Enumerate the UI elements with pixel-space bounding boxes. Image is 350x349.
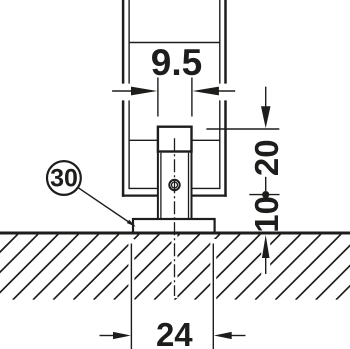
dim 24 left extension line [130, 244, 132, 349]
white halo casing for dim 24 right extension line [210, 239, 216, 301]
door right inner wall [219, 0, 221, 84]
dim 20 vertical line lower [265, 177, 267, 191]
white halo casing for dim 24 left extension line [128, 239, 134, 301]
svg-text:24: 24 [156, 316, 193, 349]
base plate (30) [133, 219, 215, 233]
dim 9.5 right extension line [191, 78, 193, 117]
guide web left outer wall [157, 152, 159, 220]
balloon leader line [79, 188, 135, 226]
dim 24 left arrowhead [113, 332, 131, 339]
centerline (dash-dot) [174, 138, 176, 296]
dim 24 right extension line [212, 244, 214, 349]
door right outer wall [224, 0, 227, 84]
dim 10 vertical line below floor [265, 250, 267, 274]
door cavity mid ledge line right [192, 139, 220, 141]
door outer bottom line left [122, 195, 158, 197]
dim 24 left tail line [100, 335, 115, 337]
door inner bottom line left [129, 187, 158, 189]
guide web right inner line [188, 153, 190, 219]
door cavity top line [129, 42, 220, 44]
white halo casing for dim 10 up arrow [261, 235, 270, 277]
dim 20 vertical line upper [265, 87, 267, 109]
dim 9.5 left arrowhead [131, 87, 157, 96]
screw outer circle [169, 180, 179, 190]
dim 9.5 left tail line [112, 90, 131, 92]
guide web left inner line [160, 153, 162, 219]
door inner bottom line right [192, 187, 220, 189]
guide web right outer wall [191, 152, 193, 220]
white halo casing for centerline below plate [172, 235, 178, 298]
floor hatching [0, 234, 350, 300]
door left inner wall [128, 0, 130, 84]
dim 24 right tail line [231, 335, 246, 337]
dim 20 top extension line [206, 128, 279, 130]
svg-text:9.5: 9.5 [151, 42, 202, 83]
dim 24 right arrowhead [214, 332, 232, 339]
dim 20 down arrowhead [261, 106, 271, 128]
dim 9.5 right arrowhead [193, 87, 219, 96]
svg-text:30: 30 [50, 165, 78, 193]
dim 10 up arrowhead [262, 235, 270, 258]
svg-text:20: 20 [248, 139, 285, 176]
screw inner circle [172, 182, 178, 188]
door left outer wall [122, 0, 125, 84]
door cavity mid ledge line left [129, 139, 158, 141]
dim boundary dot [262, 191, 269, 198]
item balloon 30 circle [47, 161, 81, 195]
balloon leader arrowhead [127, 220, 136, 227]
dim 9.5 right tail line [219, 90, 236, 92]
floor line [0, 232, 350, 235]
dim 10 vertical stub below dot [265, 196, 267, 200]
svg-text:10: 10 [248, 196, 285, 233]
dim boundary tick line [249, 194, 279, 196]
guide head block [158, 127, 192, 152]
door outer bottom line right [192, 195, 227, 197]
dim 9.5 left extension line [157, 78, 159, 117]
